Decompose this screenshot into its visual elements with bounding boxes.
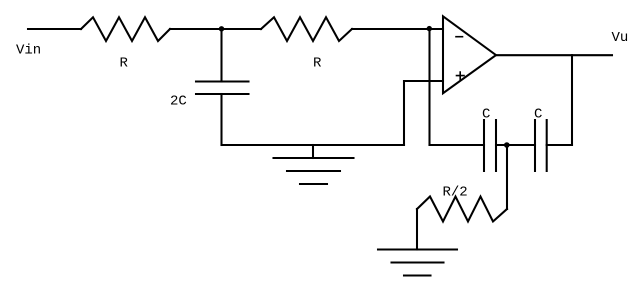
wire 2C to ground rail bbox=[220, 94, 222, 145]
node C-C midpoint junction dot bbox=[504, 142, 510, 148]
resistor R2 bbox=[261, 17, 352, 41]
svg-text:C: C bbox=[482, 107, 490, 123]
node A junction dot bbox=[219, 26, 224, 31]
ground G1 stub bbox=[312, 145, 314, 158]
wire R2 to op-amp inverting input bbox=[352, 28, 443, 30]
svg-text:C: C bbox=[534, 107, 542, 123]
svg-text:R: R bbox=[120, 56, 129, 72]
svg-text:Vin: Vin bbox=[16, 43, 41, 59]
resistor R/2 bbox=[417, 197, 507, 222]
resistor R1 bbox=[81, 17, 170, 41]
wire output branch up bbox=[571, 55, 573, 145]
capacitor 2C bottom plate bbox=[196, 93, 249, 95]
svg-text:R/2: R/2 bbox=[443, 185, 468, 201]
wire R/2 to ground G2 bbox=[416, 209, 418, 250]
op-amp plus sign bbox=[457, 72, 465, 79]
wire plus input bbox=[404, 80, 443, 82]
wire C2 to output branch bbox=[547, 144, 572, 146]
svg-text:R: R bbox=[313, 56, 322, 72]
node B junction dot bbox=[427, 26, 432, 31]
wire C1 to C2 bbox=[496, 144, 535, 146]
capacitor 2C top plate bbox=[196, 80, 249, 82]
wire node B to C1 bbox=[430, 144, 485, 146]
wire output to Vu bbox=[496, 54, 612, 56]
capacitor C2 bbox=[535, 120, 547, 171]
svg-text:Vu: Vu bbox=[612, 30, 629, 46]
svg-text:2C: 2C bbox=[170, 94, 187, 110]
capacitor C1 bbox=[484, 120, 496, 171]
op-amp minus sign bbox=[456, 36, 463, 38]
wire node A down to 2C bbox=[220, 29, 222, 82]
wire R1 to node A bbox=[170, 28, 261, 30]
ground G2 bbox=[378, 250, 457, 276]
wire ground rail bbox=[222, 144, 405, 146]
wire Vin lead bbox=[28, 28, 81, 30]
wire cap midpoint down to R/2 bbox=[506, 145, 508, 209]
op-amp U1 triangle bbox=[443, 16, 496, 93]
ground G1 bbox=[274, 158, 354, 184]
wire rail up to plus input bbox=[403, 81, 405, 145]
wire node B down bbox=[428, 29, 430, 145]
